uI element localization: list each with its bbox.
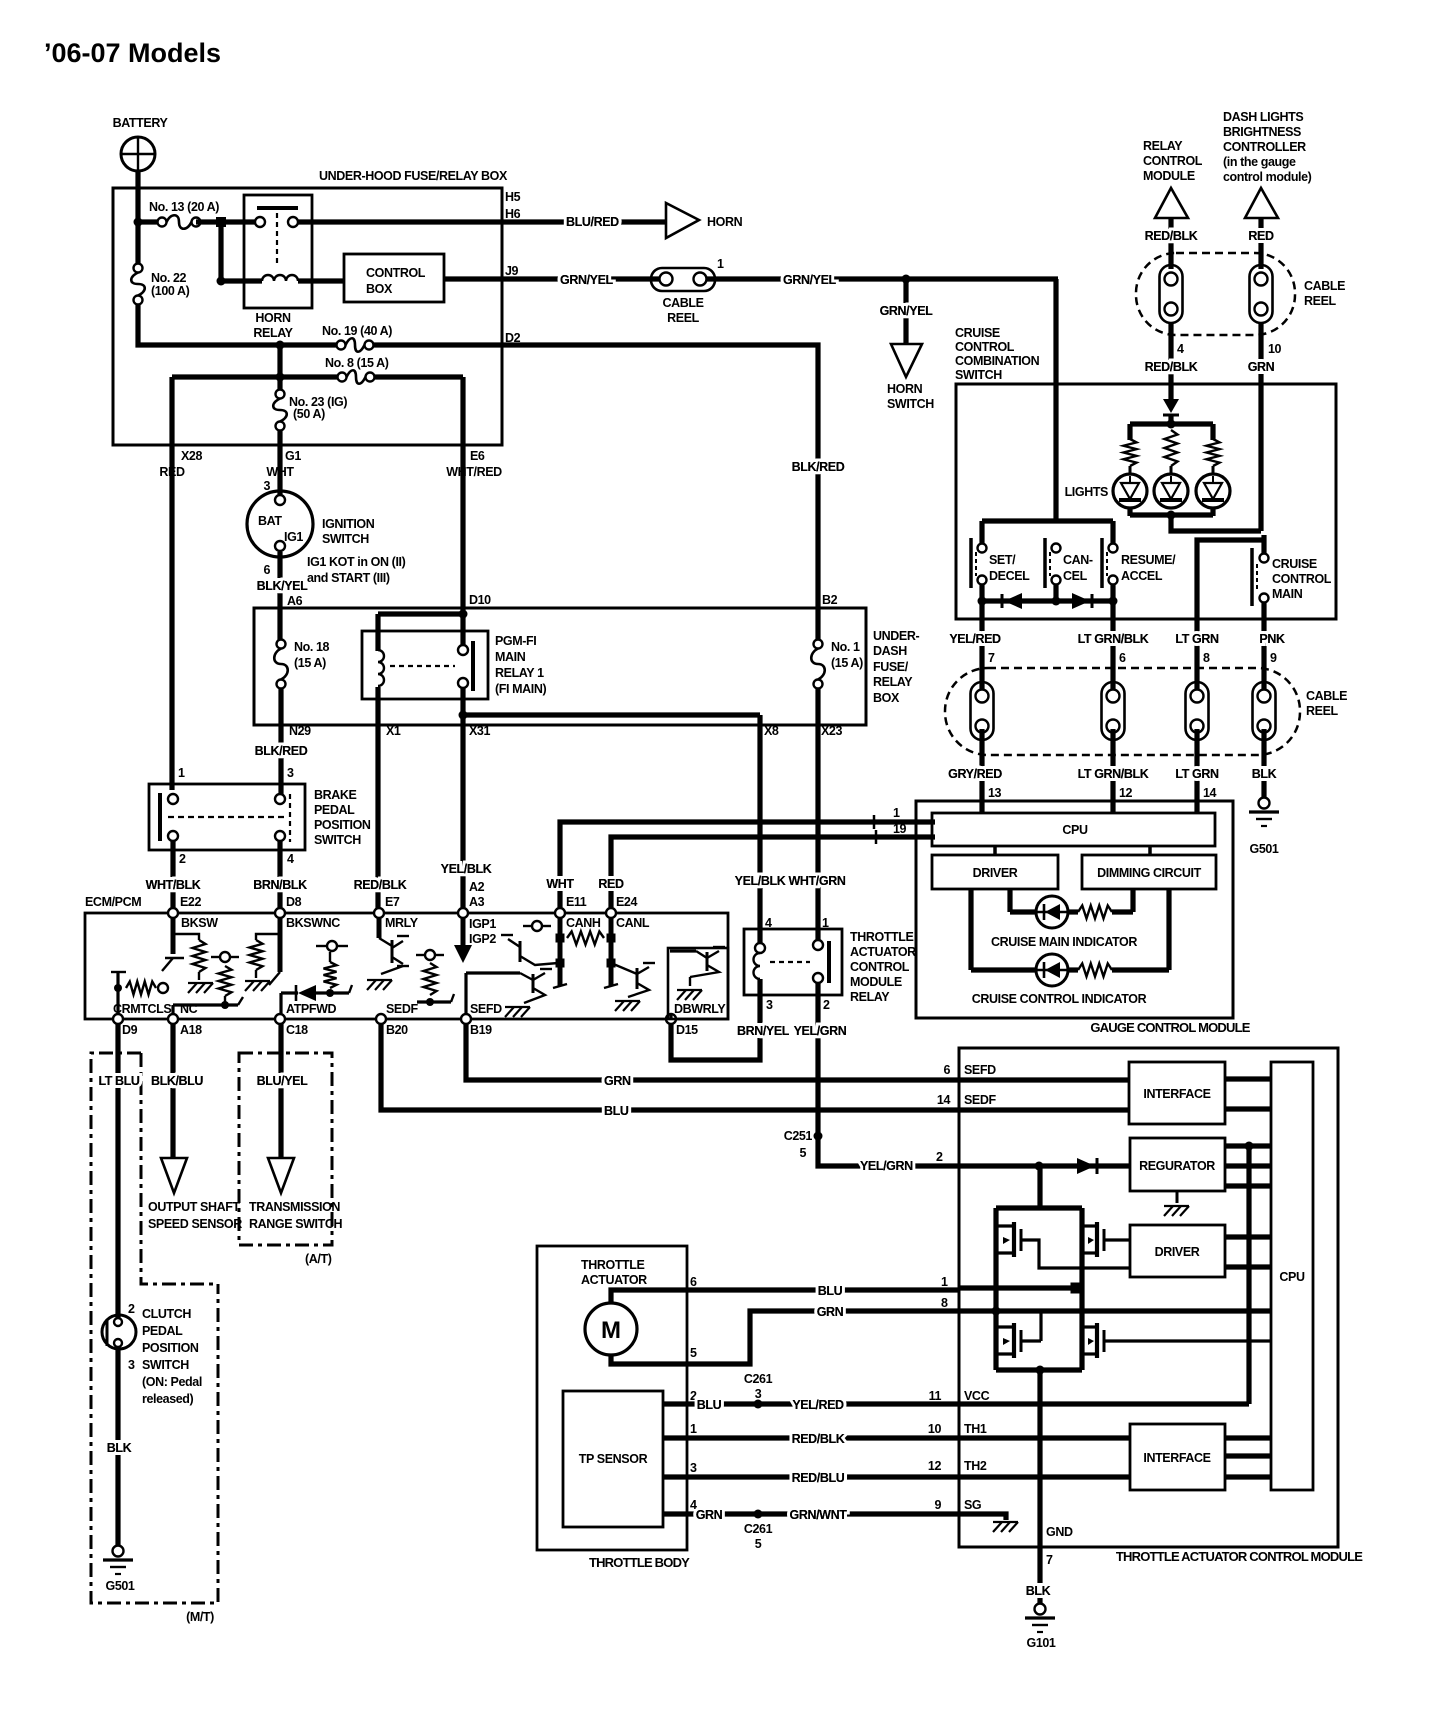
wire BRN/BLK to D8 (253, 841, 307, 909)
svg-text:DASH LIGHTS: DASH LIGHTS (1223, 110, 1303, 124)
svg-text:6: 6 (263, 563, 270, 577)
svg-text:C18: C18 (286, 1023, 308, 1037)
svg-text:MAIN: MAIN (1272, 587, 1303, 601)
svg-text:7: 7 (988, 651, 995, 665)
ECM/PCM box (85, 895, 728, 1019)
svg-text:RED/BLK: RED/BLK (354, 878, 407, 892)
svg-text:POSITION: POSITION (314, 818, 371, 832)
pin 1 (178, 766, 185, 780)
horn relay (244, 195, 312, 340)
svg-text:BLU: BLU (697, 1398, 722, 1412)
svg-text:SEDF: SEDF (964, 1093, 997, 1107)
mosfet bridge top rail (996, 1166, 1082, 1370)
svg-text:SWITCH: SWITCH (322, 532, 369, 546)
ground G101 (1025, 1604, 1056, 1651)
svg-text:No. 22: No. 22 (151, 271, 187, 285)
svg-text:BLK/RED: BLK/RED (792, 460, 845, 474)
lights feed rail (1130, 420, 1213, 441)
svg-text:3: 3 (128, 1358, 135, 1372)
svg-text:RELAY 1: RELAY 1 (495, 666, 544, 680)
svg-text:CABLE: CABLE (1306, 689, 1347, 703)
svg-text:No. 8 (15 A): No. 8 (15 A) (325, 356, 389, 370)
svg-text:IG1 KOT in ON (II): IG1 KOT in ON (II) (307, 555, 406, 569)
dash lights brightness controller (1223, 110, 1312, 218)
gauge control module box (916, 801, 1251, 1035)
wire motor pin6 BLU (611, 1275, 959, 1303)
svg-text:WHT: WHT (546, 877, 574, 891)
svg-text:REEL: REEL (667, 311, 700, 325)
junction C251 (784, 1129, 823, 1160)
brake pedal position switch (149, 784, 371, 850)
TACM CPU (1271, 1062, 1313, 1490)
terminal G1 WHT (266, 431, 301, 502)
pin 1 (822, 916, 829, 930)
svg-text:C251: C251 (784, 1129, 813, 1143)
wire GRN/YEL into cruise switch (1053, 279, 1058, 523)
svg-text:B2: B2 (822, 593, 838, 607)
svg-text:ACCEL: ACCEL (1121, 569, 1163, 583)
svg-text:GAUGE CONTROL MODULE: GAUGE CONTROL MODULE (1090, 1020, 1250, 1035)
svg-text:LIGHTS: LIGHTS (1065, 485, 1108, 499)
svg-text:1: 1 (893, 806, 900, 820)
ECM transistor Q2 (501, 921, 558, 965)
svg-text:RELAY: RELAY (1143, 139, 1183, 153)
svg-text:(A/T): (A/T) (305, 1252, 332, 1266)
throttle actuator motor M1 (585, 1303, 637, 1355)
cable reel upper (1136, 253, 1345, 335)
svg-text:ACTUATOR: ACTUATOR (581, 1273, 647, 1287)
wire TH2 to interface2 (959, 1474, 1130, 1479)
ECM CANL net (604, 918, 618, 988)
svg-text:CONTROL: CONTROL (1143, 154, 1203, 168)
svg-text:CRMTCLS: CRMTCLS (113, 1002, 171, 1016)
svg-text:X28: X28 (181, 449, 202, 463)
lights LED1 (1113, 474, 1147, 508)
svg-text:VCC: VCC (964, 1389, 990, 1403)
svg-text:(ON: Pedal: (ON: Pedal (142, 1375, 202, 1389)
wire No.18 to N29 (278, 689, 283, 795)
wire tp pin1 RED/BLK (663, 1422, 987, 1446)
svg-text:DECEL: DECEL (989, 569, 1030, 583)
cable reel lower (945, 668, 1347, 755)
svg-text:BLU: BLU (604, 1104, 629, 1118)
svg-text:9: 9 (1270, 651, 1277, 665)
pin D8 BKSWNC (275, 895, 340, 930)
svg-text:RELAY: RELAY (253, 326, 293, 340)
svg-text:3: 3 (766, 998, 773, 1012)
svg-text:INTERFACE: INTERFACE (1143, 1451, 1210, 1465)
svg-text:2: 2 (823, 998, 830, 1012)
svg-text:1: 1 (690, 1422, 697, 1436)
svg-text:RELAY: RELAY (850, 990, 890, 1004)
ECM ATPFWD diode (281, 985, 352, 1014)
svg-text:DRIVER: DRIVER (1155, 1245, 1200, 1259)
svg-text:PNK: PNK (1259, 632, 1285, 646)
svg-text:BLU: BLU (818, 1284, 843, 1298)
terminal E6 WHT/RED (446, 377, 502, 645)
svg-text:RED: RED (598, 877, 624, 891)
svg-text:BATTERY: BATTERY (113, 116, 169, 130)
mosfet Q6 (996, 1222, 1130, 1268)
wire LT GRN/BLK pin 12 (1078, 729, 1149, 813)
wire tp pin2 BLU YEL/RED (663, 1372, 990, 1412)
title 06-07 Models (44, 38, 221, 68)
svg-text:control module): control module) (1223, 170, 1312, 184)
wire pin 4 RED/BLK (1145, 322, 1198, 385)
svg-text:BLK/YEL: BLK/YEL (257, 579, 308, 593)
under-dash fuse/relay box (254, 608, 919, 725)
horn switch (887, 344, 934, 411)
svg-text:GRN/YEL: GRN/YEL (880, 304, 934, 318)
output shaft speed sensor dash box (141, 1053, 218, 1284)
ECM DBWRLY transistor Q5 (670, 947, 725, 1019)
svg-text:GRN: GRN (696, 1508, 723, 1522)
svg-text:CRUISE: CRUISE (955, 326, 1000, 340)
svg-text:CABLE: CABLE (1304, 279, 1345, 293)
wire LT GRN/BLK pin 6 (1078, 601, 1149, 694)
svg-text:GRN: GRN (604, 1074, 631, 1088)
svg-text:X31: X31 (469, 724, 490, 738)
regurator ground (1164, 1191, 1189, 1216)
svg-text:A18: A18 (180, 1023, 202, 1037)
svg-text:LT GRN: LT GRN (1175, 632, 1219, 646)
svg-text:D8: D8 (286, 895, 302, 909)
fuse No.23 IG 50A (273, 377, 347, 431)
svg-text:SEFD: SEFD (470, 1002, 502, 1016)
svg-text:PEDAL: PEDAL (314, 803, 355, 817)
ECM CAN resistor R6 (567, 932, 604, 945)
svg-text:CONTROL: CONTROL (955, 340, 1015, 354)
wire X31 to X8 link (463, 715, 760, 948)
pgm-fi main relay 1 (362, 631, 546, 699)
svg-text:UNDER-HOOD FUSE/RELAY BOX: UNDER-HOOD FUSE/RELAY BOX (319, 169, 508, 183)
wire PNK from cruise main (1261, 602, 1266, 694)
svg-text:A6: A6 (287, 594, 303, 608)
svg-text:ECM/PCM: ECM/PCM (85, 895, 141, 909)
svg-text:E11: E11 (566, 895, 587, 909)
svg-text:BLK/BLU: BLK/BLU (151, 1074, 203, 1088)
svg-text:D15: D15 (676, 1023, 698, 1037)
terminal D10 (469, 593, 491, 607)
svg-text:5: 5 (755, 1537, 762, 1551)
cruise main indicator resistor (1078, 889, 1133, 919)
svg-text:DRIVER: DRIVER (973, 866, 1018, 880)
wire node to No.8 rail (172, 345, 342, 382)
svg-text:SPEED SENSOR: SPEED SENSOR (148, 1217, 242, 1231)
wire BLK clutch to ground (107, 1347, 132, 1546)
svg-text:CRUISE: CRUISE (1272, 557, 1317, 571)
wire label PNK pin 9 (1259, 632, 1285, 665)
ECM tap resistor R4 (316, 941, 348, 988)
svg-text:(15 A): (15 A) (294, 656, 326, 670)
ECM SEFD transistor Q4 (466, 969, 552, 1017)
resistor lights 3 (1207, 439, 1220, 475)
svg-text:CABLE: CABLE (662, 296, 703, 310)
svg-text:H5: H5 (505, 190, 521, 204)
svg-text:G501: G501 (1250, 842, 1279, 856)
svg-text:PGM-FI: PGM-FI (495, 634, 536, 648)
svg-text:5: 5 (690, 1346, 697, 1360)
svg-text:RED/BLU: RED/BLU (792, 1471, 845, 1485)
wire label RED/BLK (354, 878, 407, 892)
cable reel connector horn (651, 257, 724, 325)
wire BLK/BLU (151, 1023, 203, 1158)
ECM resistor R1 (173, 934, 213, 993)
svg-text:YEL/GRN: YEL/GRN (860, 1159, 913, 1173)
svg-text:THROTTLE ACTUATOR CONTROL MODU: THROTTLE ACTUATOR CONTROL MODULE (1116, 1549, 1363, 1564)
terminal X8 (764, 724, 779, 738)
svg-text:BRIGHTNESS: BRIGHTNESS (1223, 125, 1301, 139)
wire D2 net (374, 345, 845, 644)
svg-text:No. 18: No. 18 (294, 640, 330, 654)
svg-text:2: 2 (179, 852, 186, 866)
pin E22 BKSW (168, 895, 218, 930)
cancel switch (1045, 538, 1093, 588)
svg-text:10: 10 (928, 1422, 942, 1436)
terminal X28 RED (159, 377, 202, 790)
svg-text:BLK/RED: BLK/RED (255, 744, 308, 758)
lights LED2 (1065, 474, 1188, 508)
svg-text:5: 5 (799, 1146, 806, 1160)
cruise main indicator LED (991, 889, 1137, 949)
svg-text:SET/: SET/ (989, 553, 1016, 567)
wire motor pin5 GRN (611, 1296, 959, 1364)
svg-text:C261: C261 (744, 1522, 773, 1536)
svg-text:CANH: CANH (566, 916, 601, 930)
under-hood fuse/relay box (113, 169, 508, 445)
svg-text:LT GRN: LT GRN (1175, 767, 1219, 781)
svg-text:BLU/RED: BLU/RED (566, 215, 619, 229)
ECM DBWRLY box (668, 948, 728, 1019)
svg-text:ACTUATOR: ACTUATOR (850, 945, 916, 959)
pin E7 MRLY (374, 895, 419, 930)
ECM tap resistor R2 (173, 952, 243, 1014)
svg-text:J9: J9 (505, 264, 519, 278)
svg-text:(M/T): (M/T) (186, 1610, 214, 1624)
pin 4 (287, 852, 294, 866)
svg-text:1: 1 (178, 766, 185, 780)
svg-text:YEL/RED: YEL/RED (949, 632, 1001, 646)
svg-text:CONTROL: CONTROL (1272, 572, 1332, 586)
ECM IGP arrow (454, 918, 472, 963)
wire tp pin3 RED/BLU (663, 1459, 987, 1485)
junction node (216, 217, 226, 227)
svg-text:RANGE SWITCH: RANGE SWITCH (249, 1217, 342, 1231)
svg-text:BKSW: BKSW (181, 916, 218, 930)
fuse No.19 40A (322, 324, 392, 352)
ground G501 left (103, 1546, 135, 1594)
svg-text:(FI MAIN): (FI MAIN) (495, 682, 546, 696)
TACM regurator (1130, 1138, 1225, 1191)
svg-text:BLK: BLK (1252, 767, 1277, 781)
svg-text:6: 6 (690, 1275, 697, 1289)
svg-text:TRANSMISSION: TRANSMISSION (249, 1200, 340, 1214)
TACM interface 2 (1130, 1424, 1225, 1490)
wire label YEL/GRN 2 (860, 1150, 943, 1173)
svg-text:YEL/BLK: YEL/BLK (441, 862, 492, 876)
wire J9 GRN/YEL out (444, 276, 660, 281)
wire RED from controller (1248, 218, 1274, 269)
svg-text:IGP2: IGP2 (469, 932, 496, 946)
wire label LT GRN pin 8 (1175, 632, 1219, 665)
wire regurator to CPU (1225, 1142, 1271, 1187)
svg-text:HORN: HORN (707, 215, 743, 229)
wire RED to CPU pin 19 (598, 822, 935, 909)
svg-text:M: M (601, 1317, 621, 1344)
svg-text:DASH: DASH (873, 644, 907, 658)
horn (666, 203, 743, 238)
svg-text:CAN-: CAN- (1063, 553, 1093, 567)
svg-text:THROTTLE: THROTTLE (850, 930, 914, 944)
svg-text:RELAY: RELAY (873, 675, 913, 689)
svg-text:THROTTLE: THROTTLE (581, 1258, 645, 1272)
svg-text:and START (III): and START (III) (307, 571, 390, 585)
pin 4 (765, 916, 772, 930)
terminal H6 (505, 207, 521, 221)
ECM SEDF tap resistor R5 (416, 950, 454, 1006)
svg-text:A3: A3 (469, 895, 485, 909)
terminal D2 (505, 331, 521, 345)
wire to horn switch (880, 279, 934, 344)
wire TH1 to interface2 (959, 1435, 1130, 1440)
svg-text:(100 A): (100 A) (151, 284, 190, 298)
wire interface2 to CPU (1225, 1438, 1271, 1477)
terminal H5 (505, 190, 521, 204)
wire BLK/YEL ignition to A6 (257, 552, 406, 644)
ECM BKSW contact (162, 918, 184, 971)
terminal J9 (505, 264, 519, 278)
wire interface1 to CPU (1225, 1079, 1271, 1109)
resume/accel switch (1102, 538, 1176, 588)
svg-text:BLK: BLK (1026, 1584, 1051, 1598)
switch feed rail (982, 521, 1113, 543)
wire label WHT/GRN X23 (789, 874, 846, 888)
svg-text:REEL: REEL (1304, 294, 1337, 308)
cable reel connector D (1102, 682, 1125, 740)
svg-text:LT BLU: LT BLU (98, 1074, 139, 1088)
wire No.8 to E6 (375, 374, 463, 379)
switch output rail (978, 584, 1118, 606)
svg-text:LT GRN/BLK: LT GRN/BLK (1078, 767, 1149, 781)
svg-text:CEL: CEL (1063, 569, 1088, 583)
svg-text:G101: G101 (1027, 1636, 1056, 1650)
svg-text:B20: B20 (386, 1023, 408, 1037)
wire relay coil to X1 (375, 687, 380, 909)
terminal X31 (469, 724, 490, 738)
cruise control main switch (1252, 548, 1332, 606)
pin B19 SEFD (461, 1002, 502, 1037)
TACM driver (1130, 1225, 1225, 1277)
svg-text:HORN: HORN (255, 311, 291, 325)
wire LT GRN to cruise main (1197, 535, 1264, 694)
terminal X1 (386, 724, 401, 738)
svg-text:MODULE: MODULE (1143, 169, 1195, 183)
svg-text:YEL/GRN: YEL/GRN (794, 1024, 847, 1038)
svg-text:SEFD: SEFD (964, 1063, 996, 1077)
svg-text:GRN: GRN (1248, 360, 1275, 374)
svg-text:14: 14 (937, 1093, 951, 1107)
pin 3 (287, 766, 294, 780)
svg-text:IGP1: IGP1 (469, 917, 496, 931)
svg-text:CRUISE CONTROL INDICATOR: CRUISE CONTROL INDICATOR (972, 992, 1147, 1006)
terminal N29 BLK/RED (255, 724, 312, 758)
cable reel connector F (1253, 682, 1276, 740)
svg-text:CONTROL: CONTROL (850, 960, 910, 974)
svg-text:BAT: BAT (258, 514, 282, 528)
svg-text:13: 13 (988, 786, 1002, 800)
wire No.22 to No.19 rail (138, 304, 341, 350)
svg-text:9: 9 (934, 1498, 941, 1512)
cable reel connector E (1186, 682, 1209, 740)
svg-text:DBWRLY: DBWRLY (674, 1002, 726, 1016)
pin D15 DBWRLY (666, 1002, 726, 1037)
cruise control indicator resistor (1078, 889, 1169, 977)
svg-text:4: 4 (287, 852, 294, 866)
wire BLK to ground (1252, 729, 1277, 798)
svg-text:’06-07 Models: ’06-07 Models (44, 38, 221, 68)
svg-text:14: 14 (1203, 786, 1217, 800)
svg-text:7: 7 (1046, 1553, 1053, 1567)
wire relay contact to X31 (459, 688, 468, 909)
svg-text:CLUTCH: CLUTCH (142, 1307, 191, 1321)
svg-text:TP SENSOR: TP SENSOR (579, 1452, 648, 1466)
svg-text:CRUISE MAIN INDICATOR: CRUISE MAIN INDICATOR (991, 935, 1137, 949)
wire GND BLK (1026, 1370, 1073, 1603)
svg-text:POSITION: POSITION (142, 1341, 199, 1355)
svg-text:TH1: TH1 (964, 1422, 987, 1436)
mosfet Q9 (1082, 1323, 1271, 1358)
gauge driver (932, 846, 1058, 889)
svg-text:12: 12 (928, 1459, 942, 1473)
battery (113, 116, 169, 172)
svg-text:BLU/YEL: BLU/YEL (257, 1074, 308, 1088)
svg-text:YEL/BLK: YEL/BLK (735, 874, 786, 888)
wire coil to control box (298, 278, 344, 283)
fuse No.13 20A (138, 200, 219, 229)
pin 2 (179, 852, 186, 866)
throttle actuator control module relay (744, 929, 916, 1004)
diode D2 (1002, 593, 1022, 609)
wire LT BLU (98, 1023, 139, 1318)
control box (344, 254, 444, 302)
wire horn relay coil feed (217, 222, 263, 286)
lights return rail (1130, 508, 1261, 531)
fuse No.1 15A (811, 640, 863, 689)
svg-text:X1: X1 (386, 724, 401, 738)
cable reel connector C (971, 682, 994, 740)
svg-text:E6: E6 (470, 449, 485, 463)
svg-text:RESUME/: RESUME/ (1121, 553, 1176, 567)
svg-text:OUTPUT SHAFT: OUTPUT SHAFT (148, 1200, 240, 1214)
svg-text:DIMMING CIRCUIT: DIMMING CIRCUIT (1097, 866, 1201, 880)
svg-text:3: 3 (755, 1387, 762, 1401)
svg-text:No. 19 (40 A): No. 19 (40 A) (322, 324, 392, 338)
svg-text:RED/BLK: RED/BLK (1145, 360, 1198, 374)
cruise control indicator LED (971, 889, 1147, 1006)
svg-text:BKSWNC: BKSWNC (286, 916, 340, 930)
wire RED/BLK from relay control module (1145, 218, 1198, 269)
svg-text:SWITCH: SWITCH (314, 833, 361, 847)
svg-text:6: 6 (1119, 651, 1126, 665)
svg-text:TH2: TH2 (964, 1459, 987, 1473)
cable reel connector A (1160, 265, 1183, 323)
transmission range switch (249, 1158, 342, 1231)
svg-text:GRY/RED: GRY/RED (948, 767, 1002, 781)
svg-text:MRLY: MRLY (385, 916, 419, 930)
wire battery to fuse node (134, 171, 143, 227)
pin 2 (823, 998, 830, 1012)
svg-text:6: 6 (943, 1063, 950, 1077)
